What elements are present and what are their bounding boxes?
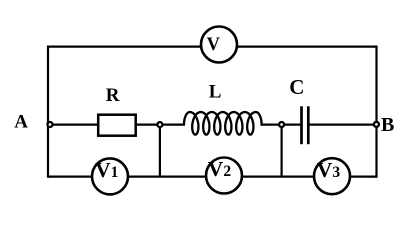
wire middle A to resistor <box>48 123 99 125</box>
wire resistor to coil <box>136 123 185 125</box>
voltmeter V (top) <box>201 27 237 63</box>
voltmeter V1 <box>92 158 128 194</box>
node A <box>48 122 53 127</box>
capacitor C1 plate right <box>307 106 310 144</box>
svg-text:R: R <box>106 85 120 106</box>
node junction R-L <box>157 122 162 127</box>
wire right rail <box>375 46 377 178</box>
node B <box>374 122 379 127</box>
wire coil to capacitor <box>261 123 301 125</box>
svg-text:B: B <box>381 114 394 136</box>
voltmeter V2 <box>206 158 242 194</box>
svg-text:C: C <box>289 75 304 99</box>
wire top rail <box>48 45 377 47</box>
wire bottom rail <box>48 176 377 178</box>
wire dropper R-L junction to bottom <box>159 125 161 177</box>
node junction L-C <box>279 122 284 127</box>
inductor L1 <box>184 112 262 135</box>
wire dropper L-C junction to bottom <box>281 125 283 177</box>
svg-text:A: A <box>14 111 28 132</box>
voltmeter V3 <box>314 158 350 194</box>
wire capacitor to B <box>309 123 377 125</box>
svg-text:L: L <box>209 82 222 103</box>
capacitor C1 plate left <box>300 106 303 144</box>
svg-text:V: V <box>207 35 221 55</box>
resistor R1 <box>98 115 136 136</box>
wire left rail <box>47 46 49 178</box>
